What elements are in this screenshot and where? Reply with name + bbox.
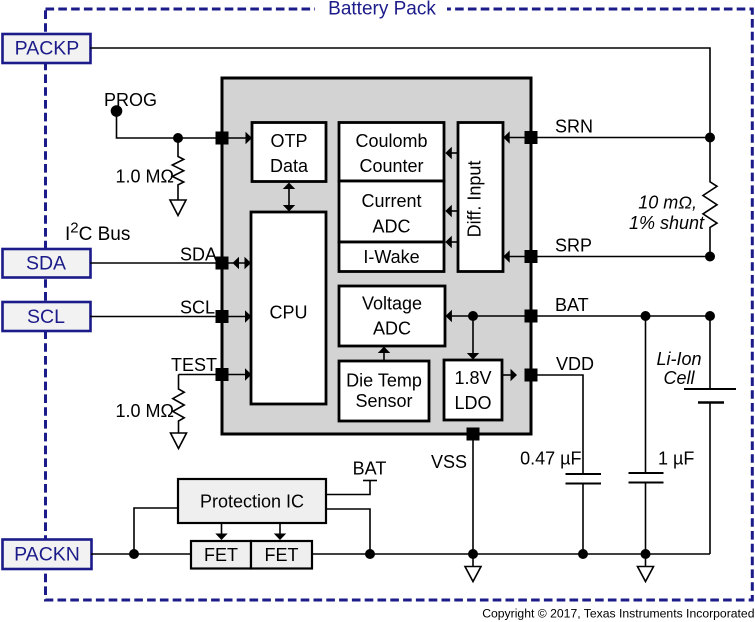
block Die Temp Sensor — [339, 361, 429, 421]
svg-text:PACKN: PACKN — [14, 544, 80, 566]
resistor R2 1.0 MOhm — [116, 375, 185, 434]
svg-text:VDD: VDD — [556, 354, 594, 374]
svg-text:I-Wake: I-Wake — [363, 247, 419, 267]
wire VDD to C1 — [537, 375, 583, 474]
svg-text:SDA: SDA — [180, 245, 217, 265]
block Coulomb Counter — [339, 123, 444, 182]
svg-text:Li-Ion: Li-Ion — [656, 349, 701, 369]
junction SRP/shunt — [705, 252, 715, 262]
wire PROG to OTP pin — [117, 111, 247, 138]
arrow LDO to VDD pin — [511, 369, 518, 381]
svg-text:OTP: OTP — [270, 131, 307, 151]
pin SRN (square) — [525, 131, 538, 144]
pin VSS (square) — [467, 428, 480, 441]
svg-text:SDA: SDA — [26, 253, 66, 275]
svg-text:Data: Data — [270, 156, 309, 176]
svg-text:Counter: Counter — [359, 156, 423, 176]
arrow SDA into CPU (double-headed) — [233, 257, 240, 269]
svg-text:0.47 µF: 0.47 µF — [520, 449, 581, 469]
arrow SRP into Diff. Input — [503, 250, 510, 262]
node BAT terminal — [326, 459, 386, 495]
ground below VSS — [465, 554, 481, 582]
protection IC U2 — [178, 479, 326, 523]
wire PACKP rail — [90, 48, 710, 138]
ground (open arrow) below R1 — [170, 200, 186, 216]
svg-text:Copyright © 2017, Texas Instru: Copyright © 2017, Texas Instruments Inco… — [482, 607, 754, 621]
svg-text:ADC: ADC — [372, 216, 410, 236]
resistor R1 1.0 MOhm — [116, 138, 184, 200]
svg-text:SCL: SCL — [27, 306, 65, 328]
transistor FET 2 — [251, 541, 312, 569]
wire protection right to rail — [326, 509, 370, 554]
svg-text:Sensor: Sensor — [355, 391, 412, 411]
wire SRN — [509, 137, 710, 139]
wire protection left to rail — [134, 508, 178, 554]
pin SRP (square) — [525, 250, 538, 263]
resistor shunt 10 mOhm — [629, 138, 717, 257]
arrow TEST into CPU — [245, 368, 252, 380]
arrow OTP-CPU (double-headed vertical) — [283, 183, 295, 212]
wire SDA — [90, 262, 251, 264]
svg-text:Battery Pack: Battery Pack — [328, 0, 436, 20]
arrow Diff. Input to Coulomb Counter — [445, 147, 458, 159]
block I-Wake — [339, 242, 444, 272]
svg-text:1.8V: 1.8V — [454, 368, 491, 388]
svg-text:VSS: VSS — [431, 452, 467, 472]
svg-text:Die Temp: Die Temp — [346, 371, 422, 391]
connector PACKP — [3, 34, 91, 63]
junction C1/rail — [578, 549, 588, 559]
pin SDA (square) — [216, 257, 229, 270]
junction BAT/LDO feed — [468, 311, 478, 321]
ground below C2 — [638, 554, 654, 582]
block 1.8V LDO — [444, 360, 502, 420]
svg-text:FET: FET — [265, 545, 299, 565]
connector PACKN — [3, 540, 92, 570]
pin PROG (square) — [216, 132, 229, 145]
wire TEST — [179, 374, 252, 376]
arrow Die Temp Sensor to Voltage ADC — [378, 347, 390, 362]
junction VSS/rail — [468, 549, 478, 559]
pin BAT (square) — [525, 310, 538, 323]
svg-text:BAT: BAT — [353, 459, 387, 479]
block Diff. Input — [458, 123, 503, 272]
wire BAT to LDO (arrow down) — [467, 316, 479, 360]
transistor FET 1 — [191, 541, 251, 569]
svg-text:1.0 MΩ: 1.0 MΩ — [116, 167, 174, 187]
block Voltage ADC — [339, 286, 445, 346]
arrow SCL into CPU — [245, 310, 252, 322]
svg-text:1% shunt: 1% shunt — [629, 213, 705, 233]
svg-text:Coulomb: Coulomb — [355, 131, 427, 151]
connector SCL — [3, 302, 91, 331]
arrow protection to FET1 — [215, 523, 227, 540]
fuel gauge IC body U1 — [222, 78, 531, 434]
junction BAT/cell — [705, 311, 715, 321]
svg-text:Voltage: Voltage — [362, 294, 422, 314]
svg-text:FET: FET — [204, 545, 238, 565]
svg-text:SRN: SRN — [555, 117, 593, 137]
node PROG — [104, 90, 157, 117]
wire VDD from LDO — [502, 374, 511, 376]
capacitor C1 0.47 uF — [520, 449, 601, 484]
junction protection/rail — [365, 549, 375, 559]
svg-text:Protection IC: Protection IC — [200, 492, 304, 512]
pin SCL (square) — [216, 310, 229, 323]
wire BAT — [451, 315, 710, 317]
junction C2/rail — [641, 549, 651, 559]
junction PACKN/protection — [129, 549, 139, 559]
wire PACKN rail — [91, 553, 710, 555]
svg-text:CPU: CPU — [269, 303, 307, 323]
svg-text:SCL: SCL — [180, 298, 215, 318]
svg-text:Diff. Input: Diff. Input — [465, 161, 485, 238]
battery cell BT1 Li-Ion — [656, 316, 736, 554]
svg-text:PACKP: PACKP — [15, 38, 80, 60]
wire C2 to rail — [645, 483, 647, 555]
junction PROG/R1 — [173, 133, 183, 143]
svg-text:Current: Current — [361, 191, 421, 211]
arrow SRN into Diff. Input — [503, 131, 510, 143]
svg-text:1.0 MΩ: 1.0 MΩ — [116, 401, 174, 421]
arrow Diff. Input to I-Wake — [445, 236, 458, 248]
wire C1 to rail — [582, 484, 584, 555]
block CPU — [251, 212, 326, 404]
wire VSS to rail — [472, 440, 474, 554]
wire SRP — [509, 256, 710, 258]
junction SRN/shunt — [705, 133, 715, 143]
svg-text:TEST: TEST — [171, 355, 217, 375]
block OTP Data — [252, 123, 326, 182]
svg-text:Cell: Cell — [663, 368, 695, 388]
wire SCL — [90, 316, 251, 318]
capacitor C2 1 uF — [629, 316, 695, 483]
svg-text:LDO: LDO — [454, 393, 491, 413]
svg-text:PROG: PROG — [104, 90, 157, 110]
connector SDA — [3, 249, 91, 278]
svg-text:10 mΩ,: 10 mΩ, — [638, 193, 697, 213]
junction BAT/1uF — [641, 311, 651, 321]
pin VDD (square) — [525, 369, 538, 382]
arrow Diff. Input to Current ADC — [445, 205, 458, 217]
svg-text:SRP: SRP — [555, 236, 592, 256]
svg-text:1 µF: 1 µF — [658, 449, 694, 469]
ground (open arrow) below R2 — [171, 433, 187, 449]
arrow into OTP Data — [246, 132, 253, 144]
arrow protection to FET2 — [274, 523, 286, 540]
svg-text:ADC: ADC — [373, 319, 411, 339]
arrow BAT into Voltage ADC — [445, 310, 452, 322]
block Current ADC — [339, 181, 444, 242]
svg-text:BAT: BAT — [555, 295, 589, 315]
pin TEST (square) — [216, 368, 229, 381]
